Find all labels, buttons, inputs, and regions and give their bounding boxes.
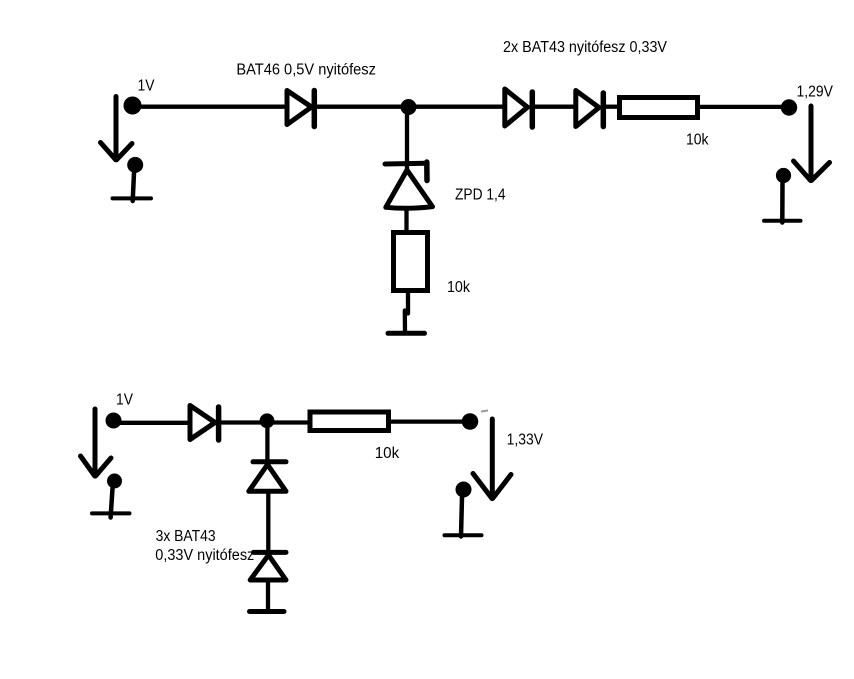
wire D4 to node B [220,420,270,424]
label ZPD 1,4 [455,187,506,204]
node dot above ground (bottom right) [456,482,472,498]
wire D2 to D3 [534,105,577,109]
wire IN2 to D4 [120,421,191,425]
node A (junction, top) [401,99,417,115]
ground (below R2) [388,331,425,336]
diode D1 BAT46 [287,91,314,127]
wire D6 to ground [266,578,270,610]
resistor R2 10k (vertical) [394,233,428,291]
node B (junction, bottom) [260,413,275,428]
svg-text:1,33V: 1,33V [507,432,544,449]
zener diode ZD1 (ZPD 1,4) [385,162,433,208]
node dot above ground (top right) [776,168,791,183]
wire D3 to R1 [605,105,620,109]
ground (top right) [764,183,801,223]
label 1,33V [507,432,544,449]
svg-text:3x BAT43: 3x BAT43 [156,528,216,545]
label BAT46 0,5V nyitófesz [236,62,376,79]
svg-text:BAT46 0,5V nyitófesz: BAT46 0,5V nyitófesz [236,62,376,79]
node IN2 (1V input, bottom left) [106,413,122,429]
svg-text:10k: 10k [686,131,709,148]
diode D3 BAT43 [576,91,604,127]
svg-text:10k: 10k [447,279,470,296]
wire IN1 to D1 [140,105,288,109]
ground (bottom right) [445,497,482,537]
stray mark above arrow (bottom right) [481,411,488,412]
svg-text:ZPD 1,4: ZPD 1,4 [455,187,506,204]
svg-text:2x BAT43 nyitófesz 0,33V: 2x BAT43 nyitófesz 0,33V [503,39,668,56]
wire node A down to ZD1 [405,110,409,170]
node IN1 (1V input, top left) [124,97,142,115]
ground (bottom left) [92,489,130,518]
svg-text:0,33V nyitófesz: 0,33V nyitófesz [155,547,254,564]
wire D5 to D6 [266,490,270,553]
svg-text:1,29V: 1,29V [797,84,834,101]
label 10k (R3) [375,445,400,462]
ground (top left) [113,173,152,201]
wire ZD1 to R2 [404,206,408,234]
diode D5 BAT43 (vertical) [249,462,286,492]
arrow output current (top right) [794,106,830,181]
wire node B to R3 [267,420,312,424]
label 1V (top input) [138,77,156,94]
node OUT1 (1,29V) [781,99,797,115]
node OUT2 (1,33V) [462,413,479,430]
diode D2 BAT43 [505,89,533,127]
diode D4 BAT43 (horizontal, bottom) [190,406,219,441]
arrow input current (top left) [101,97,133,160]
svg-text:1V: 1V [138,77,156,94]
arrow output current (bottom right) [473,419,511,499]
resistor R1 10k (horizontal, top) [620,98,698,118]
arrow input current (bottom left) [81,409,112,476]
node dot above ground (bottom left) [107,474,122,489]
ground (below D6) [250,609,285,614]
wire node B down to D5 [265,425,269,462]
wire R2 to ground [405,291,408,332]
node dot above ground (top left) [127,157,143,173]
resistor R3 10k (horizontal, bottom) [310,412,389,431]
svg-text:1V: 1V [116,392,134,409]
label 10k (R2) [447,279,470,296]
diode D6 BAT43 (vertical) [250,552,286,580]
wire R1 to OUT1 [700,105,789,109]
wire R3 to OUT2 [390,419,467,423]
label 2x BAT43 nyitófesz 0,33V [503,39,668,56]
label 10k (R1) [686,131,709,148]
svg-text:10k: 10k [375,445,400,462]
label 1V (bottom input) [116,392,134,409]
wire D1 to node A [316,105,505,109]
label 1,29V [797,84,834,101]
label 3x BAT43 / 0,33V nyitófesz [155,528,254,564]
